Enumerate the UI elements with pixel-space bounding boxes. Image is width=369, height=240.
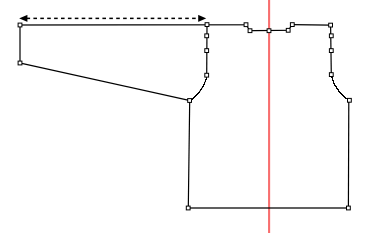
dimension arrowhead left xyxy=(19,15,27,22)
handle D bottom-right xyxy=(347,206,351,210)
wire neck left slope N-M xyxy=(246,25,250,31)
handle Q left armhole top xyxy=(205,73,209,77)
handle A top-left xyxy=(18,23,22,27)
handle H right edge upper xyxy=(329,34,333,38)
wire neck bottom M-K xyxy=(250,29,288,31)
wire diagonal B-C xyxy=(20,63,190,101)
handle P1 left seam upper xyxy=(205,34,209,38)
wire neck right slope K-J xyxy=(288,25,292,31)
handle C underarm left xyxy=(188,99,192,103)
wire right side E-D xyxy=(347,100,349,208)
handle L neck center xyxy=(267,29,271,33)
dimension arrowhead right xyxy=(198,15,206,22)
handle G right edge mid xyxy=(329,49,333,53)
wire left side C2-C xyxy=(188,101,189,208)
handle N neck left top xyxy=(244,23,248,27)
handle P2 left seam mid xyxy=(205,49,209,53)
handle M neck left bottom xyxy=(248,29,252,33)
handle K neck right bottom xyxy=(286,28,290,32)
wire top edge A(20,25)-N(246,25) xyxy=(20,24,246,26)
wire bottom edge D-C2 xyxy=(188,207,348,209)
handle E underarm right xyxy=(348,98,352,102)
handle B left lower xyxy=(18,61,22,65)
right armhole curve F-E xyxy=(332,75,350,101)
wire right shoulder J-I xyxy=(292,24,330,27)
red center line xyxy=(268,0,270,233)
handle O shoulder left xyxy=(205,23,209,27)
wire left seam vertical O-Q xyxy=(206,25,208,76)
wire left quad edge A-B xyxy=(19,25,21,63)
dimension dashed line xyxy=(27,17,200,19)
handle C2 bottom-left xyxy=(186,206,190,210)
left armhole curve Q-C xyxy=(190,76,207,101)
handle J neck right top xyxy=(290,23,294,27)
handle F right armhole top xyxy=(329,73,333,77)
handle I shoulder right xyxy=(329,23,333,27)
wire right edge I-F xyxy=(330,25,333,75)
